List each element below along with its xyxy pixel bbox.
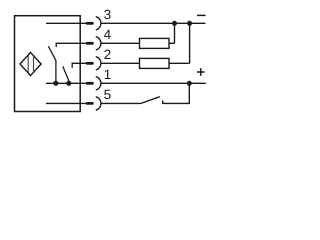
switch K2 blade: [63, 66, 69, 81]
riser R1 to minus line: [174, 23, 176, 44]
wire pin1 external to plus: [101, 82, 206, 84]
pin label 4: [104, 30, 111, 39]
pin label 3: [104, 10, 110, 19]
connector pin 3 (pill): [86, 22, 94, 25]
proximity sensor symbol (diamond): [20, 52, 41, 75]
wire pin5 inside box: [46, 102, 87, 104]
connector pin 1 (socket arc): [96, 77, 101, 91]
wire R1 to riser: [169, 42, 175, 44]
switch K2 fixed contact stub: [71, 63, 73, 68]
wire R2 to riser: [169, 62, 190, 64]
connector pin 5 (pill): [86, 102, 94, 105]
pin label 1: [105, 70, 111, 79]
pin label 5: [104, 90, 110, 99]
junction node load2/minus: [187, 21, 192, 26]
load resistor R1: [140, 38, 170, 48]
wire pin4 external: [101, 42, 140, 44]
connector pin 4 (socket arc): [96, 37, 101, 51]
junction dot K1/rail: [53, 81, 58, 86]
minus supply terminal: [197, 14, 206, 16]
switch K2 lower terminal wire: [68, 81, 70, 84]
external switch S1 fixed contact tick: [162, 100, 164, 104]
sensor body box: [15, 16, 81, 112]
switch K1 fixed contact stub: [55, 43, 57, 47]
riser R2 to minus line: [189, 23, 191, 64]
switch K1 blade: [48, 46, 55, 60]
plus supply terminal: [197, 71, 205, 73]
common rail wire pin1 inside box: [46, 82, 87, 84]
switch K1 lower terminal wire: [55, 60, 57, 83]
junction node plus/switch riser: [187, 81, 192, 86]
external switch S1 blade: [141, 97, 160, 104]
wire pin3 inside box: [46, 22, 87, 24]
riser switch to plus line: [188, 83, 190, 104]
connector pin 3 (socket arc): [96, 17, 101, 31]
pin label 2: [104, 50, 110, 59]
wire pin2 inside box: [72, 62, 88, 64]
sensor symbol inner bar left: [27, 56, 29, 73]
connector pin 1 (pill): [86, 82, 94, 85]
sensor symbol inner bar right: [33, 56, 35, 72]
load resistor R2: [140, 58, 170, 68]
wire pin3 external to minus: [101, 22, 206, 24]
junction node load1/minus: [172, 21, 177, 26]
junction dot K2/rail: [66, 81, 71, 86]
wire pin5 external: [101, 102, 141, 104]
wire pin4 inside box: [56, 42, 88, 44]
connector pin 2 (pill): [86, 62, 94, 65]
connector pin 2 (socket arc): [96, 57, 101, 71]
wire switch to riser: [163, 102, 190, 104]
wire pin2 external: [101, 62, 140, 64]
connector pin 4 (pill): [86, 42, 94, 45]
connector pin 5 (socket arc): [96, 97, 101, 111]
